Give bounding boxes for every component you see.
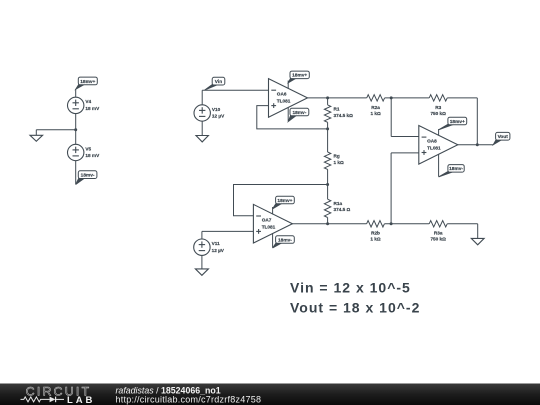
svg-text:V11: V11	[212, 241, 220, 246]
svg-text:18mv+: 18mv+	[450, 119, 465, 125]
svg-text:R3a: R3a	[434, 231, 443, 236]
svg-text:18mv+: 18mv+	[80, 79, 95, 85]
svg-text:TL081: TL081	[277, 99, 291, 104]
svg-text:Vin: Vin	[215, 79, 222, 85]
svg-text:18mv-: 18mv-	[278, 237, 292, 243]
svg-text:V5: V5	[85, 146, 91, 151]
svg-text:Vin = 12 x 10^-5: Vin = 12 x 10^-5	[290, 280, 411, 296]
svg-text:OA7: OA7	[262, 218, 272, 223]
svg-text:Vout = 18 x 10^-2: Vout = 18 x 10^-2	[290, 300, 420, 316]
svg-text:1 kΩ: 1 kΩ	[334, 160, 345, 165]
svg-text:750 kΩ: 750 kΩ	[430, 111, 446, 116]
svg-text:V10: V10	[212, 107, 221, 112]
svg-text:OA6: OA6	[277, 92, 287, 97]
svg-text:1 kΩ: 1 kΩ	[370, 237, 381, 242]
svg-text:374.5 kΩ: 374.5 kΩ	[334, 113, 354, 118]
svg-text:18mv-: 18mv-	[292, 110, 306, 116]
svg-text:LAB: LAB	[67, 395, 95, 405]
svg-text:TL081: TL081	[262, 224, 276, 229]
svg-text:12 µV: 12 µV	[212, 248, 225, 253]
svg-text:TL081: TL081	[427, 145, 441, 150]
svg-text:R1: R1	[334, 107, 340, 112]
svg-text:18 mV: 18 mV	[85, 106, 100, 111]
svg-text:374.5 Ω: 374.5 Ω	[334, 207, 351, 212]
svg-text:http://circuitlab.com/c7rdzrf8: http://circuitlab.com/c7rdzrf8z4758	[116, 394, 262, 404]
svg-text:R3: R3	[435, 105, 441, 110]
svg-text:1 kΩ: 1 kΩ	[370, 111, 381, 116]
svg-text:R2b: R2b	[371, 231, 380, 236]
svg-text:R2a: R2a	[371, 105, 380, 110]
svg-text:18mv-: 18mv-	[449, 166, 463, 172]
svg-text:12 µV: 12 µV	[212, 114, 225, 119]
svg-text:18mv+: 18mv+	[277, 198, 292, 204]
svg-text:Vout: Vout	[498, 134, 509, 140]
svg-text:Rg: Rg	[334, 154, 340, 159]
svg-text:18 mV: 18 mV	[85, 153, 100, 158]
svg-text:18mv+: 18mv+	[292, 73, 307, 79]
svg-text:OA8: OA8	[427, 139, 437, 144]
svg-text:R1a: R1a	[334, 201, 343, 206]
svg-text:750 kΩ: 750 kΩ	[430, 237, 446, 242]
svg-text:18mv-: 18mv-	[81, 172, 95, 178]
svg-text:V4: V4	[85, 99, 91, 104]
